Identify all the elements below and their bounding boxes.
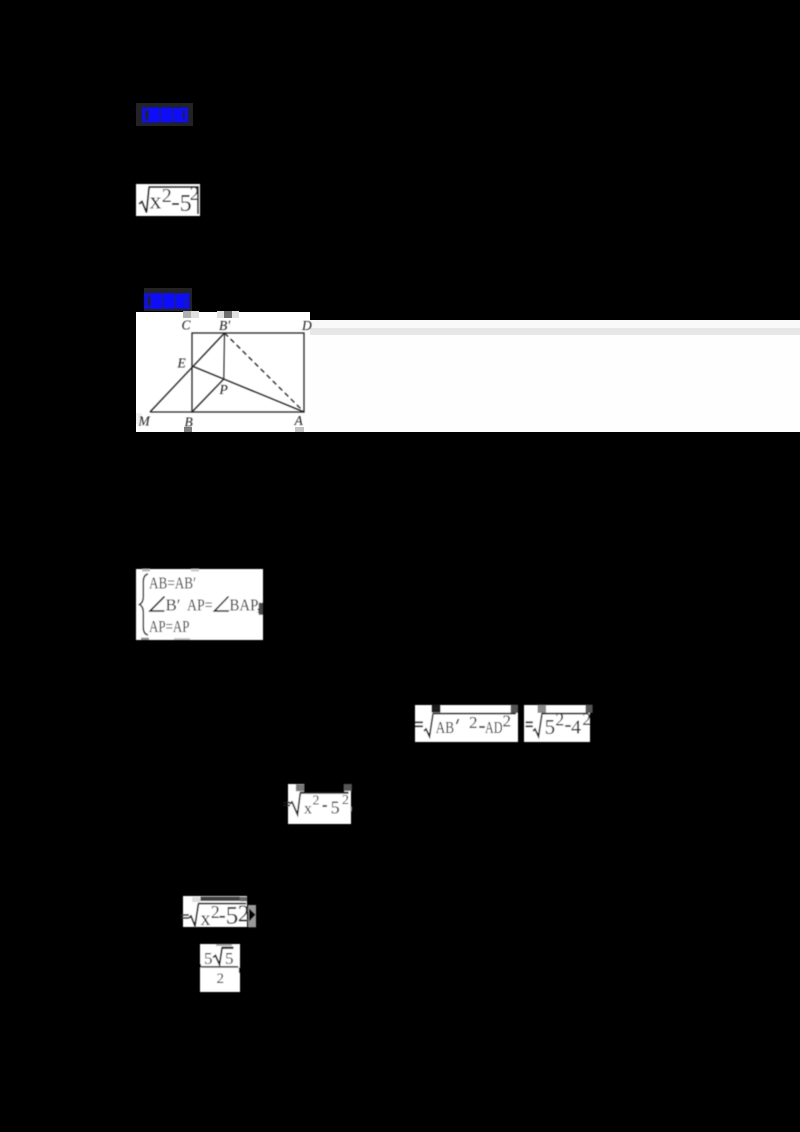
svg-text:Bʹ: Bʹ	[166, 596, 181, 615]
svg-text:Bʹ: Bʹ	[219, 318, 231, 333]
svg-text:BAP,: BAP,	[230, 596, 261, 615]
svg-text:AB=ABʹ: AB=ABʹ	[149, 574, 196, 593]
svg-text:5: 5	[331, 798, 340, 818]
svg-text:M: M	[138, 414, 151, 429]
svg-text:B: B	[185, 415, 193, 430]
svg-text:D: D	[301, 318, 312, 333]
svg-text:E: E	[177, 356, 187, 371]
svg-text:5: 5	[226, 903, 239, 930]
svg-text:5: 5	[225, 949, 234, 968]
svg-text:P: P	[219, 382, 228, 397]
svg-text:x: x	[304, 801, 312, 818]
svg-text:2: 2	[555, 710, 564, 730]
svg-text:AD: AD	[485, 718, 503, 737]
svg-text:x: x	[201, 908, 211, 930]
svg-text:AP=AP: AP=AP	[149, 617, 190, 636]
svg-text:2: 2	[469, 713, 478, 732]
svg-text:4: 4	[571, 717, 581, 739]
svg-text:2: 2	[503, 712, 512, 731]
svg-text:5: 5	[545, 715, 556, 739]
svg-text:AB: AB	[436, 718, 455, 737]
svg-text:2: 2	[211, 902, 220, 922]
svg-text:C: C	[182, 318, 192, 333]
svg-text:2: 2	[313, 794, 320, 809]
svg-text:x: x	[150, 189, 162, 215]
svg-text:2: 2	[582, 709, 591, 729]
svg-text:A: A	[294, 413, 304, 428]
svg-text:2: 2	[342, 793, 349, 808]
svg-text:5: 5	[204, 949, 213, 968]
svg-text:2: 2	[217, 971, 225, 987]
svg-text:2: 2	[162, 185, 172, 207]
svg-text:AP=: AP=	[187, 596, 213, 615]
